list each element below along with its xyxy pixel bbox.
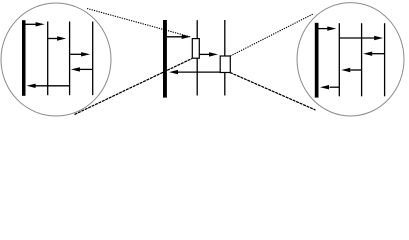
left lifeline 3 xyxy=(69,22,71,96)
right lifeline 2 xyxy=(338,23,340,96)
right arrow 4 xyxy=(341,68,361,72)
activation rect R2 xyxy=(220,56,230,73)
middle lifeline 2 (below activation) xyxy=(196,58,198,95)
middle return message xyxy=(169,70,220,74)
right arrow 3 xyxy=(363,52,384,56)
right lifeline 3 xyxy=(361,23,363,96)
middle thick lifeline xyxy=(163,20,167,98)
right lifeline 4 xyxy=(384,23,386,96)
right arrow 5 xyxy=(320,85,339,89)
left lifeline 2 xyxy=(47,22,49,96)
middle message 2 xyxy=(199,52,218,56)
middle message 1 xyxy=(167,35,191,39)
activation rect R1 xyxy=(192,39,199,59)
left arrow 2 xyxy=(48,36,66,40)
dashed projection line bottom-left xyxy=(75,59,193,115)
right arrow 1 xyxy=(319,26,337,30)
right lifeline 1 (thick) xyxy=(315,23,319,98)
left arrow 3 xyxy=(70,52,90,56)
right zoom circle xyxy=(297,3,404,116)
left arrow 4 xyxy=(71,67,92,71)
left arrow 5 xyxy=(27,84,69,88)
left arrow 1 xyxy=(26,22,45,26)
left lifeline 4 xyxy=(92,22,94,96)
middle lifeline 3 (above activation) xyxy=(224,20,226,56)
dashed projection line top-right xyxy=(230,14,313,56)
dashed projection line top-left xyxy=(87,9,191,38)
left lifeline 1 (thick) xyxy=(22,20,26,96)
left zoom circle xyxy=(1,3,111,116)
right arrow 2 xyxy=(340,36,383,40)
middle lifeline 3 (below activation) xyxy=(224,73,226,96)
middle lifeline 2 (above activation) xyxy=(196,20,198,38)
dashed projection line bottom-right xyxy=(230,73,316,111)
